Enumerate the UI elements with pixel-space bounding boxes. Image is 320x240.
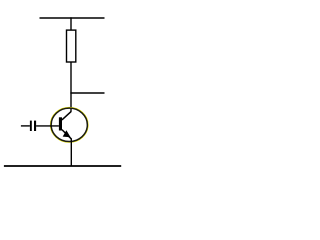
capacitor C1 left lead xyxy=(21,125,30,127)
wire bottom ground rail xyxy=(4,165,121,167)
resistor R1 xyxy=(67,30,76,62)
wire emitter to ground rail xyxy=(70,139,72,166)
transistor Q1 emitter diagonal xyxy=(62,130,72,140)
wire stub from rail to resistor R1 xyxy=(70,17,72,30)
transistor Q1 body highlight xyxy=(51,108,88,142)
capacitor C1 left plate xyxy=(30,121,32,131)
capacitor C1 right plate xyxy=(34,121,36,131)
wire top supply rail xyxy=(40,17,105,19)
transistor Q1 body circle xyxy=(51,108,87,141)
wire collector branch to right xyxy=(70,92,104,94)
transistor Q1 collector diagonal xyxy=(62,111,71,120)
transistor Q1 base bar xyxy=(59,117,62,130)
transistor Q1 emitter arrow xyxy=(64,131,70,137)
wire capacitor to base xyxy=(36,125,59,127)
wire resistor to collector xyxy=(70,62,72,112)
